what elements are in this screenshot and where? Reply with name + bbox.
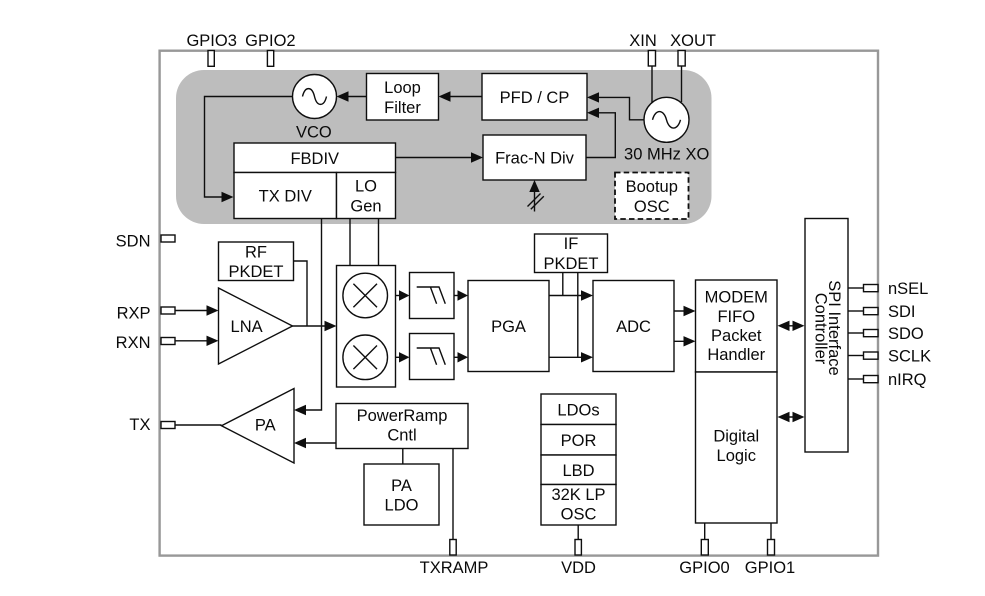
- block MODEM FIFO Packet Handler: [696, 280, 778, 372]
- wire Frac-N Div feedback to PFD/CP: [586, 113, 615, 158]
- wire mixer I to filter: [396, 295, 406, 297]
- svg-text:TX DIV: TX DIV: [259, 188, 312, 206]
- svg-text:Cntl: Cntl: [387, 427, 416, 445]
- svg-text:ADC: ADC: [616, 318, 651, 336]
- svg-text:IF: IF: [564, 235, 579, 253]
- wire ADC to MODEM (1): [674, 310, 691, 312]
- mixer I circle: [343, 273, 388, 318]
- chip outer boundary: [160, 51, 878, 556]
- filter I block: [410, 273, 455, 319]
- wire SPI to nSEL: [848, 287, 864, 289]
- svg-text:FBDIV: FBDIV: [290, 150, 339, 168]
- block FBDIV: [234, 143, 396, 173]
- svg-text:Filter: Filter: [384, 99, 421, 117]
- svg-text:PA: PA: [255, 416, 276, 434]
- double arrow MODEM to SPI: [781, 325, 801, 327]
- svg-text:FIFO: FIFO: [717, 308, 755, 326]
- svg-text:30 MHz XO: 30 MHz XO: [624, 146, 709, 164]
- wire PGA to ADC (I): [549, 295, 589, 297]
- pin TX: [161, 422, 175, 429]
- block PowerRamp Cntl: [336, 404, 468, 449]
- wire filter I to PGA: [454, 295, 464, 297]
- svg-text:Frac-N Div: Frac-N Div: [495, 150, 575, 168]
- wire PFD/CP to Loop Filter: [444, 96, 483, 98]
- wire mixer Q to filter: [396, 356, 406, 358]
- double arrow Digital Logic to SPI: [781, 416, 801, 418]
- pin SDI: [864, 308, 879, 315]
- svg-text:PKDET: PKDET: [228, 263, 283, 281]
- wire XIN to XO: [651, 64, 653, 104]
- filter Q block: [410, 334, 455, 380]
- wire PGA to ADC (Q): [549, 356, 589, 358]
- svg-text:LDO: LDO: [385, 496, 419, 514]
- svg-text:Gen: Gen: [350, 198, 381, 216]
- wire LO Gen to mixers (Q): [378, 219, 380, 266]
- pin GPIO0: [701, 540, 708, 556]
- pin TXRAMP: [450, 540, 456, 556]
- svg-text:Handler: Handler: [707, 346, 765, 364]
- svg-text:LDOs: LDOs: [557, 401, 599, 419]
- svg-text:POR: POR: [561, 432, 597, 450]
- block SPI Interface Controller: [805, 219, 848, 453]
- svg-text:XOUT: XOUT: [670, 32, 716, 50]
- svg-text:OSC: OSC: [634, 198, 670, 216]
- wire XOUT to XO: [681, 64, 683, 102]
- mixer block: [337, 266, 396, 388]
- 30 MHz XO circle: [644, 97, 689, 142]
- pin RXN: [161, 338, 175, 345]
- pin SDN: [161, 235, 175, 242]
- wire RXP to LNA: [175, 310, 214, 312]
- wire IF PKDET tap Q: [577, 273, 579, 358]
- pin SDO: [864, 330, 879, 337]
- svg-text:PowerRamp: PowerRamp: [357, 407, 448, 425]
- wire LNA to mixer: [293, 325, 333, 327]
- svg-text:32K LP: 32K LP: [551, 486, 605, 504]
- wire TX DIV down to PA: [299, 219, 322, 411]
- wire PowerRamp to TXRAMP pin: [452, 449, 454, 540]
- wire Digital Logic to GPIO0 pin: [704, 523, 706, 540]
- wire Digital Logic to GPIO1 pin: [770, 523, 772, 540]
- svg-text:SDN: SDN: [116, 233, 151, 251]
- wire Loop Filter to VCO: [342, 96, 367, 98]
- svg-text:TX: TX: [129, 416, 150, 434]
- svg-text:XIN: XIN: [629, 32, 657, 50]
- svg-text:GPIO1: GPIO1: [745, 559, 795, 577]
- svg-text:GPIO0: GPIO0: [679, 559, 729, 577]
- mixer Q circle: [343, 335, 388, 380]
- wire digital control into Frac-N Div: [534, 184, 536, 212]
- pin SCLK: [864, 352, 879, 359]
- block Frac-N Div: [483, 135, 586, 180]
- wire SPI to SDO: [848, 332, 864, 334]
- svg-text:VCO: VCO: [296, 124, 332, 142]
- svg-text:LO: LO: [355, 178, 377, 196]
- wire TX pin to PA: [175, 424, 222, 426]
- svg-text:GPIO2: GPIO2: [245, 32, 295, 50]
- svg-text:Logic: Logic: [717, 447, 756, 465]
- wire filter Q to PGA: [454, 356, 464, 358]
- block Bootup OSC (dashed): [615, 173, 689, 220]
- block POR: [541, 425, 616, 456]
- svg-text:Bootup: Bootup: [626, 178, 678, 196]
- pin XOUT: [678, 51, 685, 67]
- block 32K LP OSC: [541, 485, 616, 526]
- svg-text:SDO: SDO: [888, 325, 924, 343]
- svg-text:PA: PA: [391, 477, 412, 495]
- svg-text:RF: RF: [245, 244, 267, 262]
- VCO circle U-VCO: [293, 75, 337, 119]
- pin nIRQ: [864, 376, 879, 383]
- wire LO Gen to mixers (I): [349, 219, 351, 266]
- wire VCO feedback to TX DIV: [205, 97, 294, 198]
- block LBD: [541, 455, 616, 485]
- pin XIN: [648, 51, 655, 67]
- wire RXN to LNA: [175, 340, 214, 342]
- block LO Gen: [337, 173, 396, 219]
- wire PowerRamp to PA: [299, 442, 336, 444]
- wire RF PKDET tap to LNA output: [294, 261, 308, 326]
- svg-text:Loop: Loop: [384, 79, 421, 97]
- wire IF PKDET tap I: [562, 273, 564, 296]
- amplifier LNA: [219, 288, 293, 364]
- pin GPIO2: [267, 51, 273, 67]
- synthesizer gray region: [176, 70, 712, 224]
- svg-text:SCLK: SCLK: [888, 348, 931, 366]
- pin GPIO3: [208, 51, 214, 67]
- wire XO to PFD/CP: [592, 97, 645, 119]
- wire FBDIV to Frac-N Div: [396, 157, 479, 159]
- block PA LDO: [364, 464, 439, 525]
- svg-text:PGA: PGA: [491, 318, 526, 336]
- svg-text:PKDET: PKDET: [543, 255, 598, 273]
- svg-text:TXRAMP: TXRAMP: [420, 559, 489, 577]
- svg-text:PFD / CP: PFD / CP: [500, 89, 570, 107]
- pin RXP: [161, 307, 175, 314]
- block IF PKDET: [535, 234, 608, 273]
- svg-text:RXN: RXN: [116, 334, 151, 352]
- svg-text:LBD: LBD: [562, 462, 594, 480]
- wire PowerRamp to PA LDO: [402, 449, 404, 465]
- block Loop Filter: [367, 74, 439, 121]
- pin GPIO1: [768, 540, 775, 556]
- svg-text:MODEM: MODEM: [705, 289, 768, 307]
- wire ADC to MODEM (2): [674, 340, 691, 342]
- svg-text:VDD: VDD: [561, 559, 596, 577]
- wire SPI to SDI: [848, 310, 864, 312]
- svg-text:LNA: LNA: [231, 318, 263, 336]
- block PGA: [468, 281, 549, 372]
- svg-text:SDI: SDI: [888, 303, 916, 321]
- block PFD / CP: [482, 74, 587, 121]
- wire SPI to SCLK: [848, 355, 864, 357]
- block LDOs: [541, 394, 616, 425]
- wire LDO stack to VDD pin: [577, 525, 579, 540]
- block Digital Logic: [696, 372, 778, 523]
- svg-text:Digital: Digital: [713, 428, 759, 446]
- amplifier PA: [222, 389, 295, 464]
- block TX DIV: [234, 173, 337, 219]
- svg-text:OSC: OSC: [561, 505, 597, 523]
- pin nSEL: [864, 285, 879, 292]
- svg-text:nIRQ: nIRQ: [888, 371, 927, 389]
- wire SPI to nIRQ: [848, 378, 864, 380]
- svg-text:GPIO3: GPIO3: [186, 32, 236, 50]
- block RF PKDET: [219, 242, 294, 281]
- pin VDD: [575, 540, 581, 556]
- svg-text:Packet: Packet: [711, 327, 762, 345]
- svg-text:nSEL: nSEL: [888, 280, 928, 298]
- svg-text:RXP: RXP: [117, 304, 151, 322]
- block ADC: [593, 281, 674, 372]
- svg-text:Controller: Controller: [811, 293, 829, 365]
